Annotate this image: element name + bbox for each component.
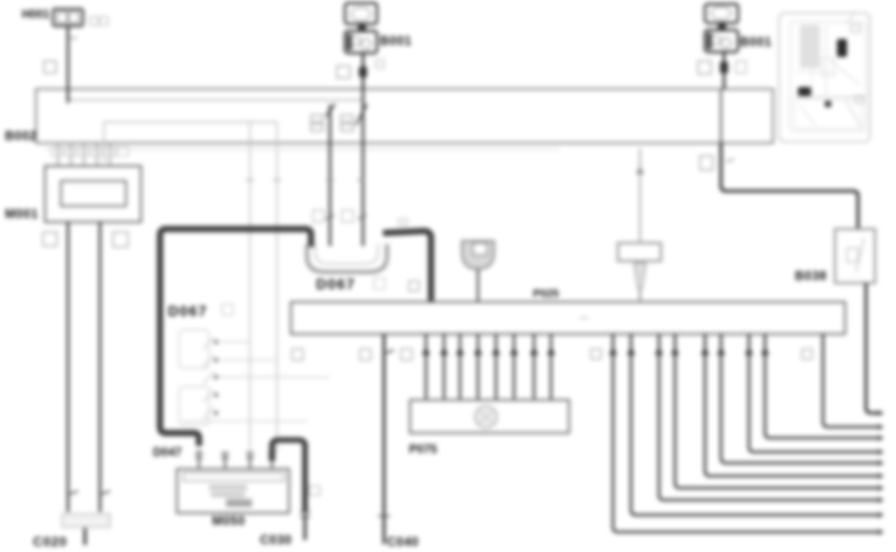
svg-text:B001: B001 [740,35,772,49]
svg-text:C020: C020 [33,534,67,549]
svg-text:B002: B002 [5,129,37,143]
svg-text:C040: C040 [387,535,419,549]
svg-text:P075: P075 [409,442,437,456]
svg-text:M050: M050 [212,514,245,528]
svg-text:D067: D067 [168,304,207,320]
svg-text:H001: H001 [22,9,50,21]
svg-text:D047: D047 [153,445,182,459]
svg-text:D067: D067 [316,277,355,293]
svg-text:M001: M001 [5,207,38,221]
svg-text:C030: C030 [260,533,292,547]
svg-text:P025: P025 [533,288,559,300]
svg-text:B001: B001 [380,34,412,48]
svg-text:B038: B038 [795,269,827,283]
